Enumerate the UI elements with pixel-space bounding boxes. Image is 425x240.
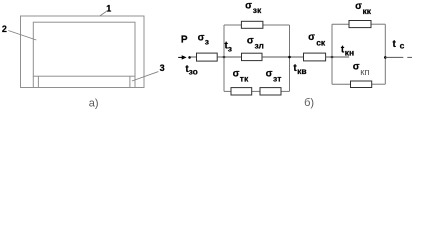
bottom branch wire	[332, 83, 351, 85]
svg-text:3: 3	[160, 63, 165, 73]
leader line 1	[100, 12, 106, 16]
svg-text:σ: σ	[353, 61, 360, 72]
svg-text:б): б)	[304, 97, 314, 109]
output dash	[407, 56, 412, 58]
node t_з dot	[223, 56, 226, 59]
device inner block (2)	[33, 22, 135, 76]
node t_зо dot	[188, 56, 191, 59]
top branch wire	[332, 23, 349, 25]
svg-text:з: з	[205, 37, 209, 47]
svg-text:зк: зк	[253, 5, 262, 15]
bottom branch wire	[224, 90, 231, 92]
svg-text:а): а)	[89, 98, 99, 110]
leader line 3	[132, 72, 159, 81]
svg-text:σ: σ	[247, 35, 254, 46]
node t_кв dot	[288, 56, 291, 59]
right side wall extension	[134, 76, 136, 87]
svg-text:кп: кп	[360, 67, 369, 78]
left side wall extension	[32, 76, 34, 87]
svg-text:зо: зо	[189, 67, 198, 77]
right branch vertical (node t_кв)	[289, 25, 291, 91]
svg-text:зт: зт	[273, 73, 281, 83]
svg-text:σ: σ	[266, 68, 273, 79]
right vertical (node t_с)	[384, 24, 386, 84]
svg-text:σ: σ	[233, 68, 240, 79]
svg-text:з: з	[228, 44, 232, 54]
svg-text:2: 2	[2, 24, 7, 34]
resistor σ_кк	[349, 21, 371, 28]
leader line 2	[8, 31, 36, 41]
svg-text:ск: ск	[316, 38, 326, 48]
node t_с dot	[384, 56, 387, 59]
svg-text:с: с	[400, 40, 405, 50]
resistor σ_тк	[231, 88, 252, 95]
resistor σ_кп	[351, 81, 372, 88]
svg-text:кв: кв	[297, 66, 306, 76]
svg-text:тк: тк	[240, 74, 249, 84]
node t_кн dot	[331, 56, 334, 59]
right foot (3)	[129, 76, 131, 87]
svg-text:σ: σ	[355, 1, 362, 12]
device case outer rectangle (1)	[21, 16, 145, 88]
resistor σ_ск	[304, 53, 326, 61]
wire to output	[385, 56, 403, 58]
wire σ_зл to t_кв	[262, 56, 304, 58]
resistor σ_зл	[242, 53, 263, 60]
heat flow arrow P	[178, 56, 182, 58]
svg-text:σ: σ	[308, 32, 315, 43]
wire to node t_з	[217, 56, 241, 58]
resistor σ_зк	[241, 21, 263, 28]
top branch wire	[224, 24, 241, 26]
svg-text:кн: кн	[345, 48, 354, 58]
left vertical (node t_кн)	[331, 24, 333, 84]
resistor σ_зт	[260, 88, 281, 95]
left foot (3)	[37, 76, 39, 87]
svg-text:σ: σ	[198, 32, 205, 43]
svg-text:1: 1	[106, 4, 111, 14]
svg-text:кк: кк	[362, 6, 371, 16]
svg-text:P: P	[181, 35, 188, 46]
wire σ_ск to t_кн	[326, 56, 349, 58]
svg-text:зл: зл	[254, 40, 264, 50]
left branch vertical (node t_з)	[223, 25, 225, 91]
wire	[191, 56, 197, 58]
svg-text:σ: σ	[245, 1, 252, 12]
resistor σ_з	[197, 53, 218, 61]
